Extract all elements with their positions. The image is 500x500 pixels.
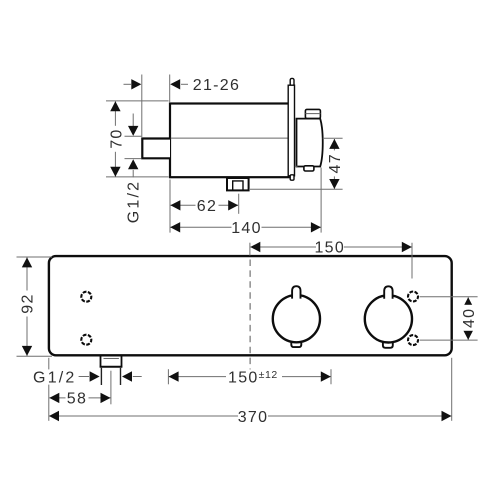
front view: dimension 150+-12 left extension line: [167, 369, 169, 384]
side view: dimension 47 bottom extension line: [250, 188, 343, 190]
side view: dimension 21-26 extension line left: [141, 75, 143, 138]
side view: dimension 140 left extension line: [169, 180, 171, 233]
front view: dimension 150+-12 right extension line: [330, 369, 332, 384]
svg-text:150: 150: [314, 240, 345, 257]
svg-text:47: 47: [327, 153, 344, 173]
side view: dimension 21-26 left arrow: [124, 79, 142, 89]
side view: inlet bottom extension line: [125, 158, 142, 160]
svg-text:G1/2: G1/2: [33, 370, 77, 387]
side view: inlet callout down arrow: [128, 114, 138, 136]
side view: dimension 140 right extension line: [320, 168, 322, 233]
side view: dimension text 21-26: [193, 77, 240, 94]
svg-text:62: 62: [197, 198, 217, 215]
side view: wall plate top cap: [290, 78, 294, 85]
front view: dimension text 150+-12: [226, 369, 282, 387]
side view: handle body: [297, 119, 323, 167]
side view: handle top tab: [305, 109, 320, 118]
svg-text:92: 92: [20, 293, 37, 313]
side view: label G 1/2 (rotated): [125, 180, 142, 224]
side view: handle bottom tab: [304, 166, 314, 171]
front view: dimension 40 line with arrows: [463, 297, 473, 340]
front view: thermostat knob left: [273, 295, 320, 342]
front view: hole leader line top: [420, 296, 478, 298]
front view: outlet stub center extension line: [110, 371, 112, 405]
front view: dimension 370 right extension line: [451, 358, 453, 421]
side view: wall plate body: [288, 85, 294, 176]
side view: dimension text 62: [196, 198, 219, 215]
side view: wall plate bottom cap: [290, 175, 294, 180]
front view: G1/2 callout left-pointing arrow: [122, 371, 142, 381]
front view: right knob top stem: [384, 286, 392, 298]
front view: outlet stub hex body: [101, 368, 120, 385]
front view: body outline: [49, 256, 452, 355]
side view: mixer body outline: [170, 104, 289, 178]
side view: dimension text 70 (rotated): [109, 126, 126, 152]
side view: G1/2 inlet connector: [142, 139, 170, 159]
side view: dimension text 140: [231, 220, 262, 237]
side view: dimension 70 bottom extension line: [106, 176, 169, 178]
front view: label G1/2: [31, 370, 79, 387]
front view: screw hole top-left (dashed): [81, 292, 91, 302]
svg-text:70: 70: [109, 128, 126, 148]
front view: dimension 92 top extension line: [17, 256, 53, 258]
svg-text:40: 40: [461, 308, 478, 328]
front view: dimension text 370: [238, 409, 269, 426]
svg-text:G1/2: G1/2: [125, 180, 142, 224]
front view: dimension text 40 (rotated): [461, 305, 478, 331]
side view: dimension 21-26 right arrow: [170, 79, 188, 89]
front view: bottom outlet stub flange: [100, 356, 123, 367]
svg-text:140: 140: [231, 220, 262, 237]
front view: dimension 370 line with arrows: [49, 411, 452, 421]
front view: vertical centerline: [249, 243, 251, 372]
svg-text:370: 370: [238, 409, 269, 426]
front view: screw hole bottom-right (dashed): [408, 335, 418, 345]
side view: dimension 47 top extension line: [323, 137, 343, 139]
side view: dimension 62 line with arrows: [170, 200, 238, 210]
side view: inlet top extension line: [125, 135, 142, 137]
side view: dimension 70 top extension line: [106, 100, 169, 102]
front view: dimension 58 line with arrows: [49, 393, 110, 403]
front view: thermostat knob right: [365, 295, 412, 342]
front view: dimension 92 bottom extension line: [17, 355, 53, 357]
front view: G1/2 callout right-pointing arrow: [79, 371, 100, 381]
side view: dimension 140 line with arrows: [170, 222, 321, 232]
front view: dimension text 58: [66, 390, 89, 407]
front view: dimension 370 left extension line: [48, 358, 50, 421]
front view: hole leader line bottom: [420, 339, 478, 341]
front view: dimension text 92 (rotated): [20, 291, 37, 317]
front view: left knob top stem: [292, 286, 300, 298]
front view: dimension text 150: [314, 239, 345, 256]
side view: dimension 21-26 extension line right: [169, 75, 171, 103]
side view: check valve fitting under body: [227, 178, 249, 190]
svg-text:21-26: 21-26: [193, 77, 240, 94]
svg-text:58: 58: [67, 391, 87, 408]
side view: handle to plate link line: [295, 165, 298, 167]
front view: dimension 150 right extension line: [411, 243, 413, 279]
side view: dimension 70 line with arrows: [110, 101, 120, 177]
front view: dimension 92 line with arrows: [22, 257, 32, 356]
front view: right knob bottom tab: [383, 342, 393, 348]
front view: screw hole bottom-left (dashed): [81, 335, 91, 345]
front view: left knob bottom tab: [291, 341, 301, 347]
side view: body mid parting line: [171, 137, 288, 139]
front view: dimension 150+-12 line with arrows: [169, 371, 331, 381]
side view: dimension 62 extension line: [238, 194, 240, 214]
side view: dimension 47 line with arrows: [329, 139, 339, 189]
side view: inlet callout up arrow: [128, 159, 138, 177]
front view: screw hole top-right (dashed): [408, 292, 418, 302]
front view: dimension 150 line with arrows: [250, 242, 411, 252]
side view: dimension text 47 (rotated): [327, 150, 344, 176]
